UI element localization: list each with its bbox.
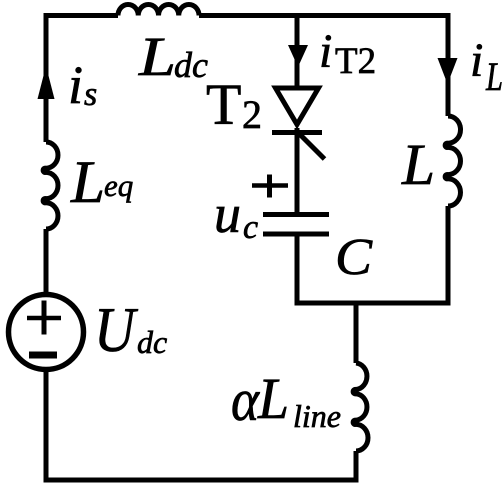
svg-text:C: C [335,229,373,286]
svg-text:u: u [214,184,241,244]
svg-text:U: U [94,294,138,365]
svg-text:dc: dc [137,324,167,360]
svg-text:L: L [257,366,289,431]
svg-text:i: i [319,25,332,78]
svg-text:i: i [68,55,83,115]
svg-text:L: L [401,132,435,197]
svg-text:L: L [70,149,105,215]
svg-text:α: α [231,367,260,433]
svg-text:T2: T2 [335,41,376,82]
svg-text:eq: eq [104,168,133,203]
svg-text:i: i [470,34,483,87]
svg-text:2: 2 [242,92,262,137]
svg-text:L: L [138,26,176,87]
svg-text:c: c [243,209,258,246]
svg-text:line: line [293,398,341,434]
svg-text:dc: dc [174,45,208,85]
svg-text:s: s [84,76,97,113]
svg-text:L: L [485,54,503,99]
svg-text:T: T [206,72,241,137]
